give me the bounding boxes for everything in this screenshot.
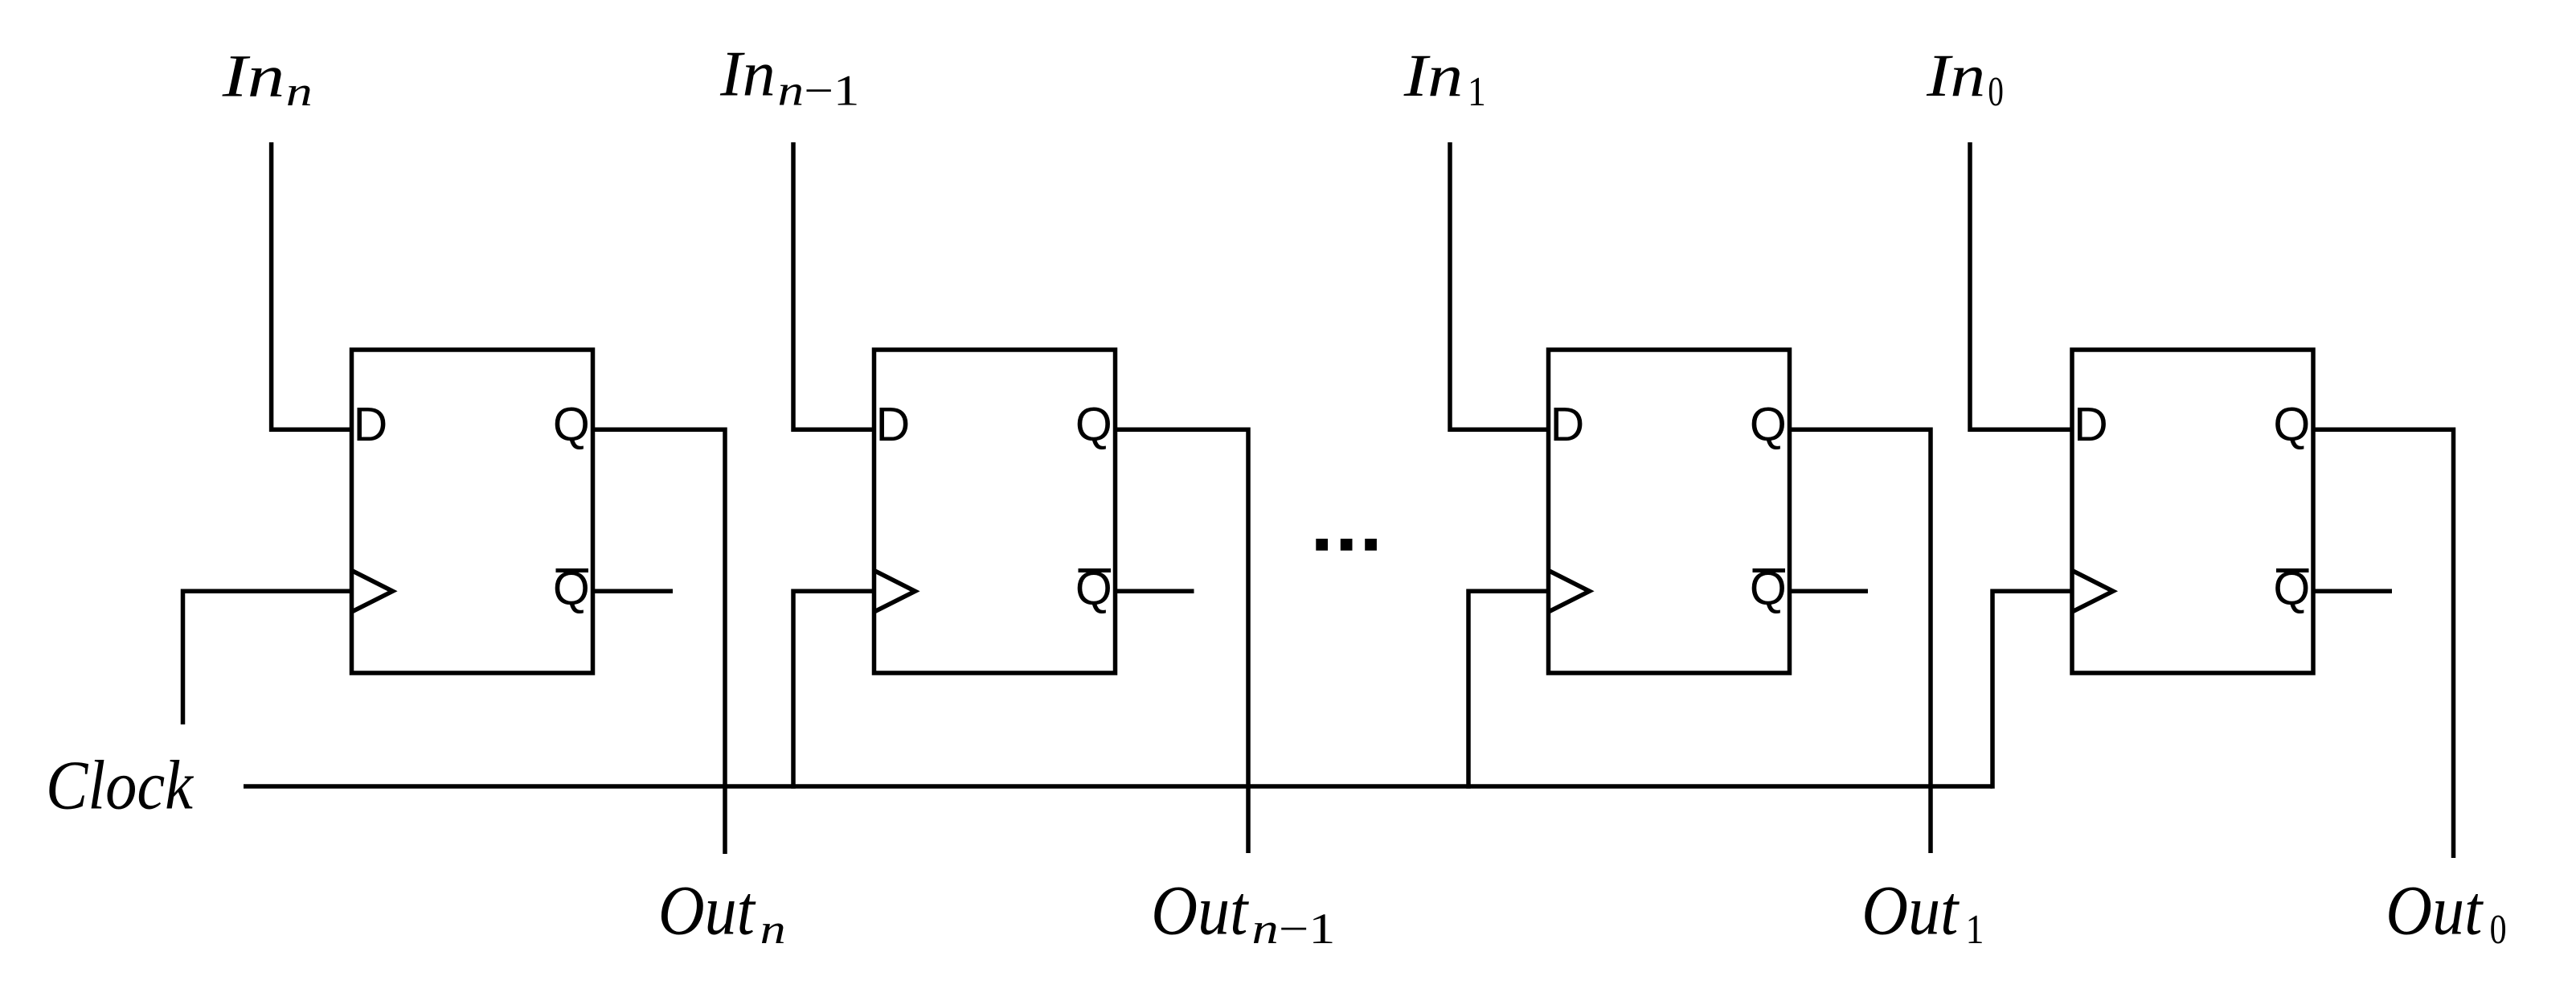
- node label Out_0: [2386, 872, 2506, 954]
- svg-text:In: In: [719, 39, 776, 110]
- wire In_n to U1 D: [272, 142, 352, 429]
- flip-flop U4 clock triangle: [2072, 571, 2113, 613]
- svg-text:0: 0: [1988, 69, 2004, 115]
- svg-text:Q: Q: [553, 398, 590, 451]
- svg-text:In: In: [1926, 43, 1985, 109]
- flip-flop U4 box: [2072, 350, 2313, 673]
- flip-flop U2 clock triangle: [874, 571, 915, 613]
- flip-flop U2 box: [874, 350, 1116, 673]
- svg-text:D: D: [354, 398, 388, 451]
- wire U3 Q to Out_1: [1790, 429, 1931, 853]
- svg-text:D: D: [2074, 398, 2108, 451]
- wire U4 Q to Out_0: [2313, 429, 2454, 858]
- node label In_n-1: [719, 39, 859, 115]
- svg-text:In: In: [1403, 43, 1464, 109]
- svg-text:Out: Out: [1151, 872, 1249, 950]
- wire clock stub to U1 clk: [183, 591, 352, 724]
- flip-flop U3 Qbar overline: [1753, 568, 1786, 572]
- wire In_n-1 to U2 D: [793, 142, 874, 429]
- flip-flop U3 box: [1549, 350, 1790, 673]
- node label Out_n-1: [1151, 872, 1335, 954]
- wire clock bus to U3 clk: [1468, 591, 1549, 788]
- wire U1 Qbar stub: [593, 589, 674, 594]
- svg-text:Out: Out: [1861, 872, 1960, 950]
- svg-text:Q: Q: [1750, 398, 1787, 451]
- wire In_0 to U4 D: [1970, 142, 2072, 429]
- flip-flop U1 box: [352, 350, 593, 673]
- flip-flop U1 Qbar overline: [556, 568, 589, 572]
- svg-text:Clock: Clock: [46, 746, 194, 824]
- node label Out_1: [1861, 872, 1984, 954]
- svg-text:1: 1: [1966, 907, 1984, 953]
- svg-text:In: In: [222, 43, 285, 110]
- svg-text:n−1: n−1: [1252, 905, 1336, 953]
- node label Out_n: [658, 872, 786, 954]
- node label In_1: [1403, 43, 1486, 115]
- svg-text:Q: Q: [1075, 398, 1112, 451]
- flip-flop U4 Qbar overline: [2276, 568, 2309, 572]
- flip-flop U3 clock triangle: [1549, 571, 1590, 613]
- wire clock bus to U2 clk: [793, 591, 874, 788]
- ellipsis between U2 and U3: [1316, 539, 1377, 551]
- clock bus: [244, 784, 1992, 789]
- svg-text:Out: Out: [2386, 872, 2484, 950]
- svg-text:n: n: [286, 69, 313, 115]
- wire clock bus to U4 clk: [1992, 591, 2072, 788]
- svg-text:n−1: n−1: [778, 67, 860, 115]
- node label In_0: [1926, 43, 2004, 115]
- svg-text:1: 1: [1468, 69, 1486, 115]
- wire U4 Qbar stub: [2313, 589, 2392, 594]
- svg-text:D: D: [876, 398, 911, 451]
- flip-flop U1 clock triangle: [352, 571, 393, 613]
- svg-text:D: D: [1550, 398, 1585, 451]
- wire U2 Qbar stub: [1116, 589, 1194, 594]
- flip-flop U2 Qbar overline: [1079, 568, 1112, 572]
- svg-text:Q: Q: [2273, 398, 2310, 451]
- svg-text:n: n: [760, 907, 786, 953]
- wire U2 Q to Out_n-1: [1116, 429, 1249, 853]
- wire U3 Qbar stub: [1790, 589, 1869, 594]
- wire U1 Q to Out_n: [593, 429, 726, 854]
- wire In_1 to U3 D: [1450, 142, 1549, 429]
- node label In_n: [222, 43, 313, 115]
- svg-text:Out: Out: [658, 872, 756, 950]
- svg-text:0: 0: [2490, 907, 2507, 953]
